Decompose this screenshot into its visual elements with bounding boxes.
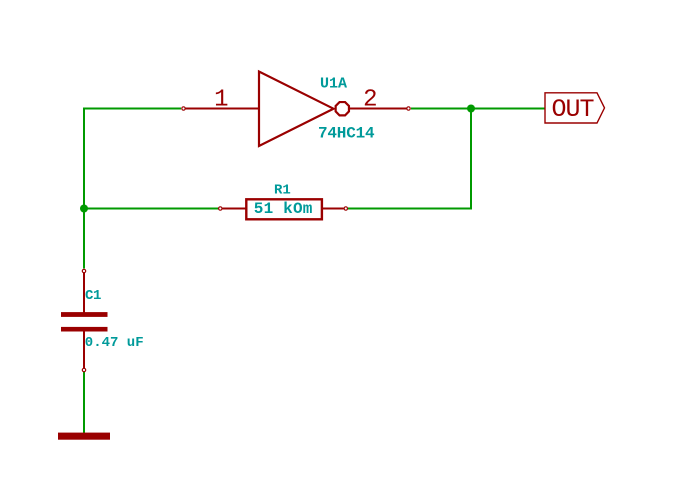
wire left vertical from top corner down to C1 — [83, 108, 85, 269]
U1A output bubble — [336, 102, 349, 115]
svg-text:OUT: OUT — [552, 95, 595, 124]
inverter U1A triangle body — [259, 72, 334, 147]
junction at left vertical and middle wire — [80, 205, 88, 213]
svg-text:0.47 uF: 0.47 uF — [85, 335, 144, 351]
wire from C1 bottom pin to ground — [83, 372, 85, 437]
U1A pin 2 line — [350, 108, 407, 110]
C1 bottom pin end circle — [82, 368, 85, 371]
svg-text:2: 2 — [363, 86, 377, 113]
wire from U1A pin 2 to OUT label — [411, 108, 545, 110]
R1 left pin line — [223, 208, 247, 210]
C1 bottom lead — [83, 331, 85, 368]
U1A pin 1 line — [186, 108, 260, 110]
svg-text:1: 1 — [214, 86, 228, 113]
junction at output node — [467, 105, 475, 113]
capacitor C1 top plate — [61, 312, 108, 317]
wire middle horizontal from left vertical to R1 left pin — [83, 208, 219, 210]
C1 top lead — [83, 273, 85, 313]
R1 right pin end circle — [344, 207, 347, 210]
R1 left pin end circle — [219, 207, 222, 210]
capacitor C1 bottom plate — [61, 327, 108, 332]
U1A pin 2 end circle — [407, 107, 410, 110]
svg-text:U1A: U1A — [320, 76, 347, 93]
hierarchical label OUT outline — [545, 93, 605, 123]
svg-text:74HC14: 74HC14 — [318, 125, 375, 143]
svg-text:R1: R1 — [274, 183, 291, 199]
wire right vertical from output node down to R1 wire — [470, 109, 472, 210]
wire top horizontal from left corner to U1A pin 1 — [83, 108, 181, 110]
U1A pin 1 end circle — [182, 107, 185, 110]
R1 right pin line — [322, 208, 344, 210]
svg-text:51 kOm: 51 kOm — [254, 200, 313, 218]
ground symbol bar — [58, 433, 110, 440]
C1 top pin end circle — [82, 269, 85, 272]
resistor R1 body — [246, 199, 322, 219]
wire from R1 right pin to right vertical — [348, 208, 472, 210]
svg-text:C1: C1 — [85, 288, 101, 304]
